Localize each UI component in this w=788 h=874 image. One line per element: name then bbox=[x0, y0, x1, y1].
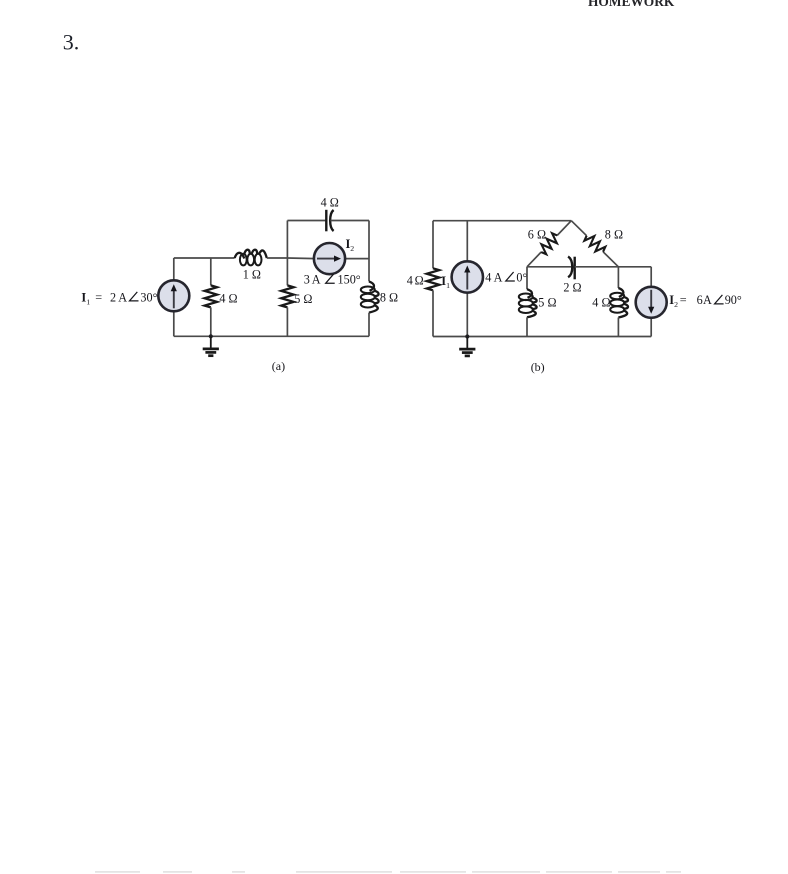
title HOMEWORK (cut off at top) bbox=[588, 0, 675, 9]
svg-text:2: 2 bbox=[674, 300, 678, 309]
svg-text:A: A bbox=[494, 270, 503, 284]
resistor R3 4ohm (vertical, b) bbox=[427, 268, 439, 290]
wire: top rail from inductor to 5ohm node bbox=[267, 257, 288, 259]
wire: middle rail left of capacitor bbox=[527, 266, 572, 268]
svg-text:6 Ω: 6 Ω bbox=[528, 227, 546, 241]
wire: 4ohm branch lower (b) bbox=[617, 318, 619, 337]
wire: I1 branch above source bbox=[466, 221, 468, 262]
svg-text:1: 1 bbox=[446, 281, 450, 290]
svg-text:2: 2 bbox=[110, 290, 116, 304]
svg-text:90°: 90° bbox=[725, 293, 742, 307]
svg-text:=: = bbox=[95, 290, 102, 304]
resistor R5 8ohm (right diagonal) bbox=[571, 221, 586, 236]
wire: 4ohm branch upper bbox=[210, 258, 212, 285]
wire: 4ohm branch upper (b) bbox=[617, 267, 619, 288]
svg-text:HOMEWORK: HOMEWORK bbox=[588, 0, 675, 9]
svg-text:4 Ω: 4 Ω bbox=[219, 291, 237, 305]
svg-text:0°: 0° bbox=[516, 270, 527, 284]
svg-text:(b): (b) bbox=[531, 360, 545, 374]
svg-text:2 Ω: 2 Ω bbox=[563, 280, 581, 294]
svg-text:4: 4 bbox=[407, 273, 413, 287]
svg-text:5 Ω: 5 Ω bbox=[294, 292, 312, 306]
svg-text:1 Ω: 1 Ω bbox=[243, 268, 261, 282]
svg-text:4 Ω: 4 Ω bbox=[592, 295, 610, 309]
inductor L2 8ohm (vertical coil) bbox=[369, 281, 374, 290]
circuit (a) bbox=[81, 195, 398, 373]
svg-text:A: A bbox=[118, 290, 127, 304]
svg-text:(a): (a) bbox=[272, 359, 285, 373]
svg-text:A: A bbox=[312, 273, 321, 287]
wire: left vertical below source I1 bbox=[173, 311, 175, 336]
svg-text:A: A bbox=[703, 293, 712, 307]
wire: I2 branch below source (b) bbox=[650, 317, 652, 337]
svg-text:2: 2 bbox=[350, 244, 354, 253]
wire: cap-loop left vertical bbox=[286, 221, 288, 259]
wire: bottom rail bbox=[174, 335, 369, 337]
inductor L3 5ohm (vertical coil) bbox=[527, 289, 532, 298]
wire: 5ohm branch upper (b) bbox=[526, 267, 528, 289]
wire: left vertical below resistor bbox=[432, 290, 434, 336]
svg-text:8 Ω: 8 Ω bbox=[605, 227, 623, 241]
capacitor C2 2ohm bbox=[568, 257, 572, 278]
svg-text:1: 1 bbox=[86, 297, 90, 306]
wire: top rail from I2 source to right vertical bbox=[343, 258, 369, 260]
ground (b) bbox=[465, 334, 469, 338]
svg-text:6: 6 bbox=[697, 293, 703, 307]
wire: 4ohm branch lower bbox=[210, 307, 212, 336]
svg-text:4 Ω: 4 Ω bbox=[321, 195, 339, 209]
inductor L4 4ohm (vertical coil) bbox=[618, 288, 623, 297]
wire: right vertical below coil bbox=[368, 313, 370, 337]
wire: top rail from 5ohm node to I2 source bbox=[287, 257, 316, 260]
wire: top rail bbox=[433, 220, 571, 222]
wire: right vertical above coil bbox=[368, 221, 370, 282]
faint cut-off text line at bottom edge bbox=[95, 871, 681, 873]
wire: 5ohm branch lower bbox=[286, 307, 288, 336]
wire: middle rail right of capacitor bbox=[575, 266, 652, 268]
svg-text:8 Ω: 8 Ω bbox=[380, 291, 398, 305]
resistor R1 4ohm (vertical) bbox=[205, 285, 217, 307]
wire: I1 branch below source bbox=[466, 292, 468, 337]
current source 3A&#8736;150deg (I2) bbox=[314, 243, 345, 274]
wire: 5ohm branch lower (b) bbox=[526, 317, 528, 336]
svg-text:=: = bbox=[680, 293, 687, 307]
current source I2 = 6A&#8736;90deg bbox=[636, 287, 667, 318]
circuit (b) bbox=[407, 221, 742, 374]
inductor L1 1ohm (horizontal coil) bbox=[235, 253, 245, 259]
wire: top rail left segment bbox=[174, 257, 235, 259]
svg-text:5 Ω: 5 Ω bbox=[538, 295, 556, 309]
problem number 3. bbox=[63, 30, 80, 55]
resistor R4 6ohm (left diagonal) bbox=[557, 221, 571, 236]
current source 4A&#8736;0deg (b) bbox=[452, 261, 483, 292]
wire: 5ohm branch upper bbox=[286, 258, 288, 285]
wire: left vertical above source I1 bbox=[173, 258, 175, 281]
ground (a) bbox=[209, 334, 213, 338]
current source I1 = 2A&#8736;30deg bbox=[158, 280, 189, 311]
svg-text:Ω: Ω bbox=[415, 273, 424, 287]
svg-text:4: 4 bbox=[485, 270, 491, 284]
resistor R2 5ohm (vertical) bbox=[281, 285, 293, 307]
wire: bottom rail (b) bbox=[433, 336, 651, 338]
wire: cap-loop top rail left of capacitor bbox=[287, 220, 326, 222]
wire: I2 branch above source (b) bbox=[650, 267, 652, 288]
svg-text:30°: 30° bbox=[140, 290, 157, 304]
svg-text:3: 3 bbox=[304, 273, 310, 287]
capacitor C1 4ohm bbox=[325, 210, 327, 232]
svg-text:3.: 3. bbox=[63, 30, 80, 55]
svg-text:150°: 150° bbox=[338, 273, 361, 287]
wire: cap-loop top rail right of capacitor bbox=[330, 220, 369, 222]
wire: left vertical above resistor bbox=[432, 221, 434, 269]
